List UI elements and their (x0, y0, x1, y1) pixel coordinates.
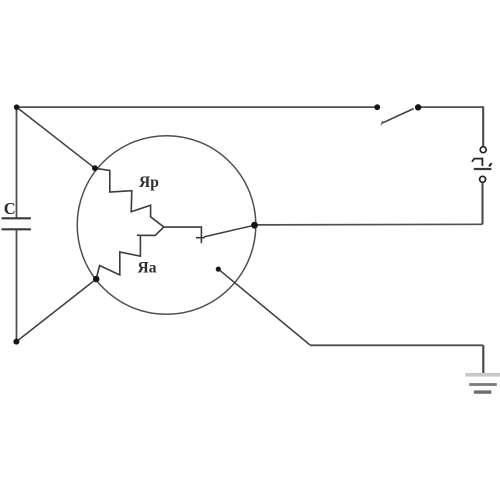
wiper arrow cross tick (196, 237, 205, 239)
ground bar 2 (469, 383, 497, 386)
node: Rp top junction dot (92, 165, 98, 171)
node: Ra bottom junction dot (93, 276, 100, 283)
wire: diagonal from node A to Rp top junction (17, 107, 95, 168)
element B1 body right tick (489, 163, 491, 166)
node: switch left contact dot (374, 104, 380, 110)
wire: diagonal from brush dot to bottom bus (220, 270, 311, 345)
element B1 body bottom bar (474, 168, 492, 170)
capacitor C1 top plate (2, 217, 31, 219)
wire: right vertical from element bottom terminal down (481, 182, 483, 224)
resistor Ra zigzag (96, 227, 164, 279)
resistor Rp zigzag (95, 168, 164, 227)
wiper lead vertical bar (200, 226, 202, 243)
wire: top bus from node A to switch left contact (17, 106, 378, 108)
element B1 top terminal circle (480, 147, 486, 153)
ground bar 3 (474, 390, 492, 393)
wire: top bus from switch right contact to top-right corner (418, 106, 483, 108)
wire: right vertical down to element top terminal (482, 106, 484, 146)
wire: bottom bus horizontal (310, 344, 483, 346)
svg-text:Яp: Яp (139, 174, 159, 191)
node D bottom-left junction dot (13, 339, 19, 345)
wiper diagonal to circle edge node (204, 225, 255, 237)
element B1 bottom terminal circle (480, 176, 486, 182)
capacitor C1 bottom plate (2, 228, 31, 230)
wire: diagonal from node D to Ra bottom junction (16, 279, 96, 342)
svg-text:Яa: Яa (138, 260, 157, 277)
node: switch right contact dot (415, 104, 421, 110)
ground bar 1 (465, 373, 500, 377)
element B1 body squiggle (472, 159, 483, 166)
machine M1 stator circle (77, 136, 256, 315)
wiper lead horizontal from Rp/Ra vertex (164, 226, 202, 228)
svg-text:C: C (4, 199, 16, 218)
node A top-left junction dot (14, 104, 20, 110)
wire: left vertical upper (node A to capacitor) (16, 107, 18, 218)
node: wiper terminal dot on circle right edge (251, 222, 258, 229)
wire: left vertical lower (capacitor to node D) (16, 230, 18, 341)
switch S1 blade end tick (381, 121, 383, 126)
node: brush terminal dot inside circle (216, 267, 221, 272)
wire: horizontal to wiper node on circle (255, 223, 483, 226)
wire: ground vertical (482, 345, 484, 375)
switch S1 blade (open) (382, 109, 414, 124)
